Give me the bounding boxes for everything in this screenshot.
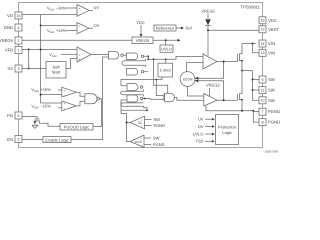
- NAND gate G1: [109, 52, 119, 60]
- svg-text:7: 7: [262, 110, 264, 114]
- node junction VFB/VO vertical: [40, 49, 42, 51]
- arrow into XCON lower: [198, 81, 224, 100]
- wire VREG5 pin2 to VREG5 regulator box: [22, 39, 132, 41]
- wire VREG5 down to HS driver: [207, 30, 209, 56]
- wire HS driver output to FET gate: [217, 61, 238, 63]
- node SW junction: [241, 70, 243, 72]
- svg-text:UDG-598: UDG-598: [265, 150, 278, 154]
- svg-text:1: 1: [18, 48, 20, 52]
- svg-text:VBST: VBST: [268, 27, 279, 32]
- wire VO feedback from pin 16: [22, 15, 41, 104]
- wire VREF -30% label to UV comparator: [67, 7, 78, 9]
- svg-text:UV: UV: [198, 117, 204, 122]
- ground: [32, 125, 38, 128]
- svg-text:SS: SS: [7, 66, 13, 71]
- svg-text:UV: UV: [94, 5, 100, 10]
- svg-text:2: 2: [18, 39, 20, 43]
- wire VREF +15% label to OV comparator: [67, 30, 78, 32]
- svg-text:VO: VO: [7, 13, 14, 18]
- wire VIN to HS drain: [242, 43, 256, 45]
- wire G3 output stub: [144, 71, 149, 73]
- IC outline border: [19, 3, 263, 148]
- svg-text:5: 5: [18, 114, 20, 118]
- svg-text:SW: SW: [154, 117, 161, 122]
- wire OCP input PGND: [144, 144, 151, 146]
- svg-text:VREG5: VREG5: [201, 9, 215, 14]
- soft start box: [46, 62, 66, 79]
- wire VREG3 to LS driver: [209, 88, 211, 97]
- wire latch feedback loop G2 G3: [122, 61, 146, 65]
- svg-text:Enable Logic: Enable Logic: [45, 137, 68, 142]
- wire main drive to HS driver: [148, 57, 203, 60]
- pin box VREG5 2: [15, 37, 22, 44]
- wire UV output: [89, 9, 93, 11]
- wire G5 output to G6: [143, 98, 163, 101]
- svg-text:Logic: Logic: [222, 130, 232, 135]
- wire OCP input SW: [144, 137, 151, 139]
- comparator PGOOD high (+15%): [62, 87, 76, 97]
- svg-text:+: +: [141, 118, 143, 122]
- pin box PGND 7: [259, 108, 266, 115]
- svg-text:VIN: VIN: [268, 41, 275, 46]
- svg-text:11: 11: [261, 88, 265, 92]
- svg-text:−: −: [63, 93, 65, 97]
- wire VREG5 output: [153, 39, 178, 41]
- transistor LS FET: [237, 94, 239, 100]
- wire G1 to G2: [123, 54, 126, 56]
- svg-text:+: +: [79, 24, 81, 28]
- wire branch down to soft start: [28, 50, 30, 69]
- svg-text:GND: GND: [4, 25, 13, 30]
- node junction VFB/softstart: [28, 49, 30, 51]
- comparator ZC: [130, 116, 144, 129]
- svg-text:+: +: [79, 6, 81, 10]
- VREG5 regulator box: [132, 37, 153, 44]
- svg-text:3: 3: [18, 67, 20, 71]
- pin box SW 10: [259, 97, 266, 104]
- pin box SS 3: [15, 65, 22, 72]
- svg-text:VDC: VDC: [136, 20, 145, 25]
- driver LS: [204, 94, 217, 107]
- wire branch down to G6: [154, 59, 168, 93]
- NAND gate G3: [127, 69, 138, 76]
- wire EN pin to Enable Logic: [22, 139, 43, 141]
- comparator UV: [77, 5, 89, 17]
- wire PGOOD logic to transistor gate: [39, 123, 60, 126]
- wire VFB branch to +15% comparator: [41, 94, 62, 96]
- svg-text:VFB: VFB: [5, 48, 13, 53]
- svg-text:PGOOD Logic: PGOOD Logic: [64, 124, 90, 129]
- svg-text:−: −: [63, 107, 65, 111]
- wire SW bus verticals to pins: [253, 71, 260, 101]
- VDC arrow into VREG5 box: [140, 25, 142, 34]
- wire error amp output to gate G1: [91, 54, 109, 56]
- diode VREG5 bootstrap: [207, 14, 209, 20]
- wire VIN bus to pin 13: [253, 44, 260, 53]
- svg-text:OV: OV: [94, 23, 100, 28]
- transistor Q PGOOD open drain: [35, 118, 40, 120]
- node junction on VO line at OV branch: [40, 25, 42, 27]
- one shot box: [158, 63, 173, 77]
- wire XCON bottom to LS driver: [188, 86, 204, 96]
- svg-text:Start: Start: [52, 70, 61, 75]
- wire latch feedback loop G4 G5: [121, 91, 144, 95]
- pin box EN 6: [15, 136, 22, 143]
- pin box VFB 1: [15, 47, 22, 54]
- Protection Logic box: [216, 115, 239, 145]
- svg-text:PGND: PGND: [153, 142, 165, 147]
- PGND rail: [206, 106, 253, 111]
- UVLO box: [160, 45, 173, 52]
- svg-text:6: 6: [18, 137, 20, 141]
- wire PGND bus to pins: [253, 111, 259, 122]
- svg-text:VDC: VDC: [268, 18, 277, 23]
- arrow TSD input: [205, 140, 212, 142]
- wire NAND output to PGOOD logic box: [93, 99, 102, 127]
- svg-text:PGND: PGND: [268, 120, 280, 125]
- driver HS: [203, 54, 217, 69]
- Reference box: [154, 25, 176, 31]
- pin box PGND 8: [259, 119, 266, 126]
- svg-text:TSD: TSD: [196, 139, 204, 144]
- op-amp error amplifier: [77, 47, 91, 62]
- wire comp1 to NAND: [76, 92, 85, 96]
- svg-text:TPS50811: TPS50811: [241, 5, 261, 10]
- Enable Logic box: [43, 137, 71, 143]
- NAND gate G5: [127, 95, 138, 102]
- svg-text:SW: SW: [268, 88, 275, 93]
- pin box VDC 15: [259, 17, 266, 24]
- wire SW node down to LS drain: [241, 71, 243, 94]
- svg-text:VREG3: VREG3: [206, 83, 220, 88]
- arrow UVLO input: [205, 133, 212, 135]
- wire one shot branch to G6 upper input: [156, 80, 163, 96]
- wire VREF-15% label to comparator: [58, 107, 62, 109]
- pin box VIN 14: [259, 40, 266, 47]
- svg-text:Reference: Reference: [156, 26, 175, 31]
- pin box PG 5: [15, 112, 22, 119]
- comparator OCP: [130, 135, 144, 147]
- svg-text:16: 16: [17, 14, 21, 18]
- svg-text:VREG5: VREG5: [0, 38, 14, 43]
- wire OV output: [89, 27, 93, 29]
- svg-text:+: +: [79, 53, 81, 57]
- wire LS driver output to FET gate: [217, 99, 238, 101]
- pin box SW 11: [259, 87, 266, 94]
- svg-text:UVLO: UVLO: [161, 46, 172, 51]
- svg-text:UVLO: UVLO: [193, 131, 204, 136]
- wire diode to VBST pin: [208, 26, 259, 31]
- wire Enable logic output up the middle: [71, 57, 109, 140]
- arrow Reference to Ref: [176, 27, 181, 29]
- svg-text:EN: EN: [7, 137, 13, 142]
- svg-text:VIN: VIN: [268, 51, 275, 56]
- wire VREG5 to UVLO: [165, 40, 167, 45]
- svg-text:4: 4: [18, 26, 20, 30]
- wire VFB from pin 1 to error amp: [22, 49, 77, 51]
- arrow UV input: [205, 118, 212, 120]
- svg-text:−: −: [79, 13, 81, 17]
- arrow into XCON upper: [198, 62, 224, 79]
- NAND gate G2: [127, 53, 138, 60]
- wire tap down to one shot: [165, 59, 167, 63]
- svg-text:SW: SW: [153, 136, 160, 141]
- PGOOD Logic box: [60, 124, 93, 131]
- wire ZC input SW: [145, 119, 152, 121]
- svg-text:+: +: [141, 137, 143, 141]
- wire VREF to error amp: [61, 53, 77, 55]
- svg-text:15: 15: [261, 19, 265, 23]
- wire ZC output route to G5: [121, 100, 130, 123]
- svg-text:Ref: Ref: [186, 26, 193, 31]
- svg-text:−: −: [141, 124, 143, 128]
- wire comp2 to NAND: [76, 101, 85, 106]
- wire XCON top link to HS driver: [187, 63, 204, 72]
- wire PG pin to transistor drain: [22, 117, 37, 120]
- svg-text:14: 14: [261, 42, 265, 46]
- pin box GND 4: [15, 24, 22, 31]
- svg-text:SW: SW: [268, 77, 275, 82]
- AND gate G6 with inverting inputs: [165, 93, 175, 102]
- svg-text:Protection: Protection: [218, 125, 236, 130]
- wire VO to UV comparator input: [41, 14, 77, 16]
- pin box VIN 13: [259, 49, 266, 56]
- svg-text:1-shot: 1-shot: [160, 68, 172, 73]
- wire one shot output loop: [121, 77, 162, 86]
- NAND gate PGOOD: [85, 94, 97, 104]
- svg-text:PGND: PGND: [154, 123, 166, 128]
- node junction at SS wire: [28, 68, 30, 70]
- svg-text:10: 10: [261, 99, 265, 103]
- svg-text:−: −: [79, 48, 81, 52]
- svg-text:XCON: XCON: [183, 77, 193, 81]
- comparator PGOOD low (-15%): [62, 101, 76, 111]
- wire VFB end to -15% comparator: [41, 102, 62, 104]
- wire loop below G5: [121, 103, 143, 106]
- NAND gate G4: [127, 84, 138, 91]
- wire OCP output: [127, 123, 131, 142]
- svg-text:SW: SW: [268, 98, 275, 103]
- svg-text:−: −: [79, 30, 81, 34]
- pin box VBST 12: [259, 26, 266, 33]
- svg-text:VREG5: VREG5: [136, 38, 150, 43]
- svg-text:+: +: [79, 57, 81, 61]
- svg-text:−: −: [141, 143, 143, 147]
- svg-text:12: 12: [261, 28, 265, 32]
- svg-text:OV: OV: [198, 124, 204, 129]
- svg-text:PG: PG: [7, 113, 13, 118]
- wire VREF+15% label to comparator: [58, 89, 62, 91]
- wire VO branch to OV comparator: [41, 25, 77, 27]
- transistor HS FET: [237, 54, 239, 62]
- wire lower return branch: [121, 109, 147, 111]
- svg-text:13: 13: [261, 51, 265, 55]
- wire ZC input PGND: [145, 125, 152, 127]
- pin box SW 9: [259, 76, 266, 83]
- wire G2 output: [144, 56, 149, 59]
- arrow OV input: [205, 126, 212, 128]
- svg-text:+: +: [63, 102, 65, 106]
- wire SS pin to Soft Start box: [22, 68, 46, 70]
- pin box VO 16: [15, 12, 22, 19]
- svg-text:8: 8: [262, 121, 264, 125]
- svg-text:PGND: PGND: [268, 109, 280, 114]
- svg-text:+: +: [63, 88, 65, 92]
- wire SW node to SW bus: [242, 70, 253, 72]
- svg-text:9: 9: [262, 78, 264, 82]
- wire soft start output to error amp: [66, 59, 77, 69]
- XCON circle: [180, 72, 195, 87]
- comparator OV: [77, 23, 89, 34]
- wire G6 output to LS driver: [175, 97, 204, 100]
